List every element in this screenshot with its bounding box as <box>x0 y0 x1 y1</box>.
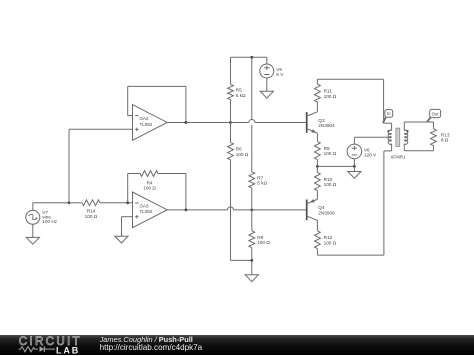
svg-text:LAB: LAB <box>56 345 80 355</box>
CircuitLab logo CIRCUIT <box>19 335 82 348</box>
svg-text:100 Ω: 100 Ω <box>324 182 337 187</box>
transistor Q3 (NPN) <box>306 112 308 133</box>
svg-text:2N3904: 2N3904 <box>318 123 335 128</box>
svg-text:XFMR1: XFMR1 <box>390 154 406 159</box>
wire feedback top right <box>158 173 186 175</box>
svg-text:R6: R6 <box>236 147 242 152</box>
wire R5 to node A <box>230 100 232 123</box>
wire node A to R6 <box>230 122 232 142</box>
wire V6 top to center tap <box>353 137 355 144</box>
wire bottom row to transformer <box>317 254 384 256</box>
voltage source V7 (sine) <box>26 210 40 224</box>
svg-text:OA2: OA2 <box>140 116 150 121</box>
svg-text:R12: R12 <box>324 235 333 240</box>
wire R11 to top rail <box>316 79 318 84</box>
wire secondary top to R13 <box>403 122 405 131</box>
svg-text:Q3: Q3 <box>318 118 325 123</box>
svg-text:5 kΩ: 5 kΩ <box>236 93 246 98</box>
node junction emitter mid <box>316 165 319 168</box>
svg-text:100 Ω: 100 Ω <box>324 241 337 246</box>
wire Q3 emitter down <box>316 133 318 141</box>
footer url <box>100 343 203 352</box>
node junction OA3 output <box>185 208 188 211</box>
op-amp OA2 <box>133 105 168 141</box>
wire rail down to R7 (crosses row A) <box>251 57 253 120</box>
svg-text:100 Ω: 100 Ω <box>324 151 337 156</box>
ground below middle column <box>245 275 258 282</box>
wire R6 down to ground row <box>230 160 232 261</box>
node junction input/V7 <box>68 201 71 204</box>
node junction ground net <box>250 259 253 262</box>
transformer XFMR1 secondary coil <box>404 130 407 144</box>
wire +8V rail <box>231 56 267 58</box>
svg-text:Q4: Q4 <box>318 205 325 210</box>
svg-text:R8: R8 <box>324 146 330 151</box>
svg-text:R9: R9 <box>257 235 263 240</box>
wire ground stem <box>251 260 253 274</box>
wire OA3 noninverting stub <box>122 216 133 218</box>
wire node B to Q4 base <box>252 209 307 211</box>
wire V6 ground stem <box>353 166 355 171</box>
svg-text:100 Ω: 100 Ω <box>257 240 270 245</box>
transformer XFMR1 primary coil <box>388 130 391 144</box>
transistor Q4 (PNP) <box>306 199 308 220</box>
node junction row B / R7 R9 <box>250 208 253 211</box>
op-amp OA3 <box>133 192 168 228</box>
voltage source V5 <box>260 64 274 78</box>
wire OA3 output <box>167 209 186 211</box>
resistor R4 <box>140 171 158 177</box>
svg-text:Out: Out <box>432 111 440 116</box>
svg-text:100 Hz: 100 Hz <box>42 219 58 224</box>
svg-text:120 V: 120 V <box>364 152 377 157</box>
wire V7 top to input row <box>32 203 34 211</box>
footer title <box>100 335 193 344</box>
wire R14 to OA3 inverting node <box>100 202 133 204</box>
wire input node up to OA2 noninverting <box>68 129 70 203</box>
wire input row to R14 <box>69 202 82 204</box>
wire secondary bottom <box>433 146 435 151</box>
node junction OA2 output <box>185 121 188 124</box>
CircuitLab logo symbol + LAB <box>18 345 84 356</box>
node junction V6 ground <box>353 165 356 168</box>
node junction row A / R5 R6 <box>229 121 232 124</box>
resistor R14 <box>82 200 100 206</box>
ground below OA3 noninverting <box>115 236 128 243</box>
resistor R13 <box>431 129 437 146</box>
resistor R10 <box>315 172 321 190</box>
wire R7 to node B <box>251 188 253 210</box>
svg-text:100 Ω: 100 Ω <box>324 94 337 99</box>
svg-text:R11: R11 <box>324 89 333 94</box>
svg-text:R10: R10 <box>324 177 333 182</box>
wire OA3 output row to node B (hop over R6 leg) <box>186 209 228 211</box>
svg-text:8 V: 8 V <box>276 72 284 77</box>
svg-text:TL082: TL082 <box>140 122 153 127</box>
wire OA2 feedback loop <box>127 86 129 115</box>
svg-text:5 kΩ: 5 kΩ <box>257 181 267 186</box>
resistor R6 <box>228 142 234 159</box>
wire Q4 collector down <box>316 220 318 230</box>
svg-text:R5: R5 <box>236 88 242 93</box>
svg-text:R13: R13 <box>441 132 450 137</box>
svg-text:8 Ω: 8 Ω <box>441 138 449 143</box>
resistor R9 <box>249 231 255 248</box>
wire node A to Q3 base (hop over rail) <box>231 121 249 123</box>
svg-text:R14: R14 <box>87 209 96 214</box>
transformer secondary phase dot <box>407 130 409 132</box>
wire OA2 output row to node A <box>186 121 231 123</box>
wire top rail to transformer <box>317 78 383 80</box>
wire node B to R9 <box>251 210 253 231</box>
wire OA2 output <box>167 121 186 123</box>
svg-text:R4: R4 <box>147 180 153 185</box>
svg-text:TL082: TL082 <box>140 209 153 214</box>
wire mid node to V6 <box>317 165 354 167</box>
wire V6 bottom <box>353 159 355 167</box>
ground below V5 <box>260 91 273 98</box>
wire R12 to bottom row <box>316 249 318 256</box>
svg-text:OA3: OA3 <box>140 204 150 209</box>
wire OA2 inverting stub <box>128 115 133 117</box>
resistor R12 <box>315 231 321 249</box>
wire V7 bottom to ground <box>32 224 34 237</box>
transformer primary phase dot <box>388 130 390 132</box>
wire R8 to mid node <box>316 160 318 167</box>
ground below V6 <box>348 172 361 179</box>
wire rail to R5 <box>230 57 232 84</box>
svg-text:100 Ω: 100 Ω <box>143 186 156 191</box>
svg-text:2N3906: 2N3906 <box>318 211 335 216</box>
wire feedback top left stub <box>128 173 140 175</box>
flag Out <box>427 117 431 122</box>
transformer core <box>396 128 400 146</box>
node junction rail <box>250 56 253 59</box>
resistor R8 <box>315 141 321 159</box>
svg-text:R7: R7 <box>257 175 263 180</box>
resistor R11 <box>315 84 321 102</box>
wire mid node to R10 <box>316 166 318 172</box>
flag In <box>383 117 386 123</box>
resistor R5 <box>228 84 234 99</box>
resistor R7 <box>249 172 255 188</box>
wire OA3 feedback left <box>127 174 129 203</box>
wire R13 top lead <box>433 122 435 129</box>
node junction OA3 inverting <box>126 201 129 204</box>
svg-text:100 Ω: 100 Ω <box>85 214 98 219</box>
wire R9 to ground node <box>251 248 253 261</box>
svg-text:100 Ω: 100 Ω <box>236 152 249 157</box>
wire Q3 collector up <box>316 102 318 112</box>
voltage source V6 <box>347 144 362 159</box>
ground below V7 <box>26 237 39 244</box>
wire V5 bottom <box>266 78 268 91</box>
wire V5 top <box>266 57 268 64</box>
wire R10 to Q4 emitter <box>316 191 318 200</box>
